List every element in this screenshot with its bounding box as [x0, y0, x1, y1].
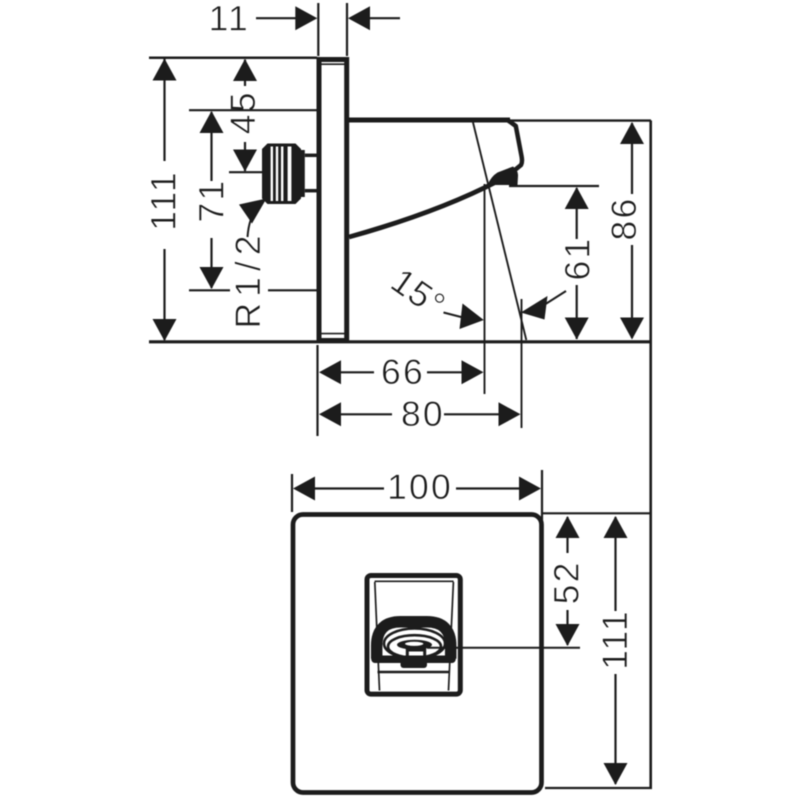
dimension 66 [319, 352, 484, 392]
holder lip wedge (solid) [488, 167, 519, 186]
holder top edge [348, 118, 510, 123]
holder top extension to 86 [510, 119, 651, 121]
dimension 71 [192, 111, 232, 289]
extension line plate bottom right [545, 787, 652, 789]
cup bottom bar [375, 655, 452, 663]
dimension 45 [223, 59, 263, 172]
holder housing (front view inner rect) [367, 576, 460, 695]
extension line fitting centre y=172 [229, 171, 262, 173]
extension line bottom wall (y=342) [149, 340, 651, 343]
extension line top (plate top, y=58) [149, 57, 317, 60]
right long vertical extension line [649, 121, 652, 789]
svg-text:100: 100 [387, 467, 453, 507]
svg-text:61: 61 [558, 237, 598, 281]
svg-text:66: 66 [381, 352, 425, 392]
dimension 80 [319, 394, 521, 434]
dimension 86 [604, 122, 644, 340]
svg-text:45: 45 [223, 90, 263, 134]
extension line y=110 (71 top reference) [189, 109, 317, 111]
label 15 deg with leader arrow [384, 260, 484, 329]
plate chamfer line top [322, 63, 345, 65]
svg-text:52: 52 [547, 560, 587, 604]
cup spout outline [406, 647, 426, 657]
cup spout window (white) [409, 651, 423, 656]
wall plate (side view) [319, 60, 347, 341]
svg-text:111: 111 [595, 609, 635, 670]
dimension 111 (front view) [595, 516, 635, 785]
extension line 61 top (hook tip level) [509, 185, 599, 187]
dimension 52 [547, 516, 587, 646]
svg-text:71: 71 [192, 179, 232, 223]
label R1/2 with leader [228, 199, 268, 329]
angle leader arrow to slant line [521, 291, 566, 320]
housing bevel top line [375, 580, 454, 582]
extension line plate top right [543, 512, 652, 514]
housing bevel right line [449, 582, 454, 691]
cup ellipse A (outer rim) [384, 629, 445, 659]
housing bevel left line [375, 582, 380, 691]
vertical reference line (66 ext / angle vertex) [484, 184, 486, 394]
extension line y=290 (71 bottom reference, gap for text) [189, 289, 230, 291]
front plate (rounded square) [293, 515, 542, 793]
dimension 11 (plate thickness, top) [209, 0, 400, 56]
svg-text:R1/2: R1/2 [228, 230, 268, 329]
dimension 61 [558, 187, 598, 340]
left extension below wall (66/80) [316, 345, 318, 436]
cup ellipse C inner white lens [405, 642, 423, 646]
fitting flange [301, 150, 305, 197]
holder hook front profile [508, 120, 522, 173]
fitting neck [305, 154, 317, 158]
centre line of cup to 52 dimension [427, 647, 580, 649]
80 extension line [521, 299, 523, 428]
dimension 111 (side view height) [144, 59, 184, 342]
svg-text:80: 80 [401, 394, 445, 434]
svg-text:15°: 15° [384, 260, 453, 325]
housing inner line under cup [378, 671, 451, 673]
cup arch [377, 622, 451, 659]
plate chamfer line bottom [322, 333, 345, 335]
thread fitting R1/2 (octagon body with thread stripes) [262, 144, 301, 205]
cup ellipse C (inner, thick) [397, 640, 432, 650]
svg-text:111: 111 [144, 170, 184, 231]
svg-text:86: 86 [604, 197, 644, 241]
holder arm underside curve [349, 182, 497, 238]
cup ellipse B [388, 635, 441, 658]
15 degree slant line [472, 120, 526, 341]
svg-text:11: 11 [209, 0, 250, 39]
dimension 100 [292, 467, 542, 521]
cup bottom tab (solid) [401, 661, 428, 669]
